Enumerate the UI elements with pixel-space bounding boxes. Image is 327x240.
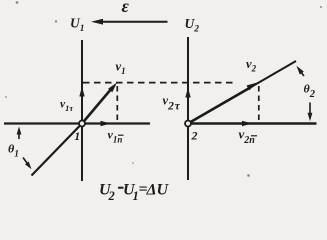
angle theta2 arrow to axis	[308, 103, 313, 122]
vector v2	[188, 83, 257, 124]
svg-text:ε: ε	[122, 0, 130, 16]
dashed projection v1 vertical	[116, 86, 118, 122]
line extension of v1 below axis	[32, 124, 83, 176]
vector v1	[82, 83, 117, 124]
axis 1 horizontal	[4, 122, 150, 124]
axis U1 vertical	[81, 40, 83, 181]
node 1 origin circle	[79, 121, 85, 127]
minus sign in formula	[118, 187, 124, 189]
line extension of v2 beyond arrowhead	[188, 61, 296, 124]
dashed projection line horizontal	[83, 82, 237, 84]
component arrow v2tau	[185, 88, 190, 124]
scan speckles	[5, 1, 322, 177]
angle theta1 arrow to axis	[17, 127, 22, 140]
overbar of n in v1n	[118, 134, 124, 136]
angle theta2 arrow to line	[297, 66, 305, 76]
node 2 origin circle	[185, 121, 191, 127]
emf arrow epsilon	[91, 19, 168, 25]
dashed projection v2 vertical	[258, 86, 260, 120]
svg-text:1: 1	[74, 129, 80, 143]
component arrow v1tau	[79, 87, 84, 124]
angle theta1 arrow to line	[23, 158, 32, 170]
axis U2 vertical	[187, 37, 189, 180]
component arrow v1n	[82, 121, 111, 126]
overbar of n in v2n	[251, 135, 257, 137]
component arrow v2n	[188, 121, 252, 126]
svg-text:2: 2	[191, 129, 198, 143]
axis 2 horizontal	[187, 122, 317, 125]
